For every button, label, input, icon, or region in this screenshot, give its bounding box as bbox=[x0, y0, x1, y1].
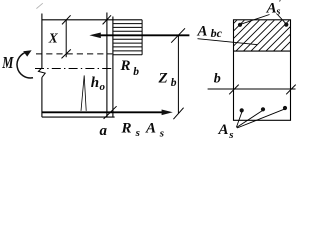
svg-text:s: s bbox=[135, 127, 140, 139]
svg-text:A: A bbox=[197, 24, 208, 40]
tick for a dimension bbox=[104, 106, 117, 119]
vertical h_o dimension line bbox=[106, 13, 108, 118]
tick bottom of X bbox=[62, 49, 71, 58]
tension resultant arrow R_s A_s (points right) bbox=[42, 110, 173, 116]
svg-text:A: A bbox=[218, 122, 229, 138]
X dimension line bbox=[62, 15, 117, 119]
svg-text:o: o bbox=[100, 81, 106, 93]
moment arc M bbox=[17, 50, 33, 78]
svg-text:b: b bbox=[171, 77, 177, 89]
svg-text:s: s bbox=[159, 128, 164, 140]
diagonal hatching of compressed zone bbox=[205, 17, 315, 52]
svg-text:h: h bbox=[91, 75, 99, 91]
tick top of h_o bbox=[103, 15, 111, 24]
svg-text:Z: Z bbox=[158, 70, 168, 86]
left edge lower part bbox=[41, 77, 43, 117]
bottom edge of beam bbox=[42, 116, 115, 118]
compression resultant arrow (points left) bbox=[89, 33, 189, 39]
b dimension line bbox=[208, 85, 296, 95]
svg-text:A: A bbox=[266, 1, 277, 17]
svg-text:M: M bbox=[1, 54, 14, 72]
svg-text:b: b bbox=[214, 72, 221, 87]
svg-text:X: X bbox=[48, 30, 59, 45]
svg-text:R: R bbox=[121, 120, 132, 136]
left edge upper part bbox=[41, 14, 43, 68]
bottom of compressed (hatched) zone bbox=[234, 50, 291, 52]
svg-text:b: b bbox=[133, 66, 139, 78]
svg-text:R: R bbox=[120, 58, 131, 74]
svg-text:A: A bbox=[145, 120, 156, 136]
faint tick at top-left corner bbox=[36, 3, 42, 8]
svg-text:s: s bbox=[275, 7, 280, 18]
svg-text:s: s bbox=[228, 129, 233, 141]
crack line bbox=[81, 75, 86, 111]
leader lines bbox=[198, 15, 286, 129]
centerline (dash-dot) bbox=[35, 68, 113, 70]
svg-text:a: a bbox=[100, 123, 108, 139]
svg-text:bc: bc bbox=[211, 26, 223, 40]
beam right edge / stress axis bbox=[112, 17, 114, 118]
Z_b dimension line bbox=[171, 28, 185, 119]
neutral axis (dashed) bbox=[36, 53, 112, 55]
tick top of X bbox=[62, 15, 71, 24]
break (zigzag) in left edge bbox=[38, 68, 45, 78]
top edge of beam bbox=[42, 19, 142, 21]
compression stress block (hatched with horizontal lines) bbox=[113, 20, 142, 55]
rebar dots bbox=[238, 23, 289, 113]
section outline bbox=[234, 20, 291, 121]
